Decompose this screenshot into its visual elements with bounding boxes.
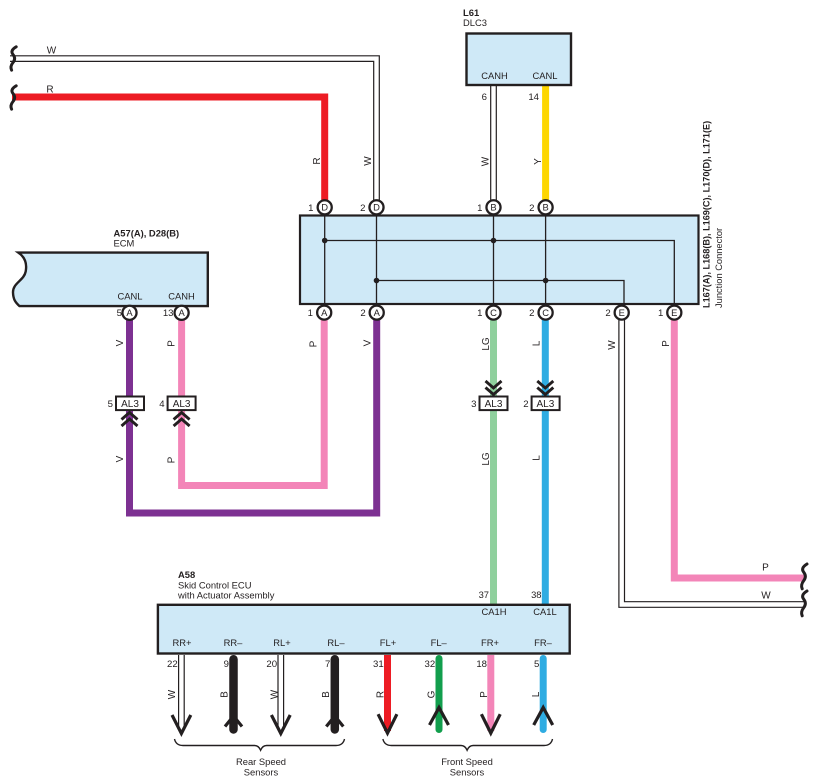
svg-text:V: V <box>363 339 374 346</box>
svg-text:Rear Speed: Rear Speed <box>236 756 286 767</box>
svg-text:FL+: FL+ <box>380 637 397 648</box>
svg-text:Sensors: Sensors <box>244 767 279 778</box>
svg-text:7: 7 <box>325 659 330 670</box>
svg-text:W: W <box>363 156 374 166</box>
svg-text:A: A <box>178 307 185 318</box>
svg-text:B: B <box>542 202 548 213</box>
svg-text:AL3: AL3 <box>537 399 555 410</box>
svg-text:RL+: RL+ <box>273 637 291 648</box>
svg-text:6: 6 <box>482 92 487 103</box>
svg-text:CANL: CANL <box>532 70 557 81</box>
svg-text:38: 38 <box>531 589 541 600</box>
svg-text:2: 2 <box>523 399 528 410</box>
svg-text:B: B <box>219 691 230 698</box>
svg-text:A: A <box>374 307 381 318</box>
svg-text:4: 4 <box>159 399 165 410</box>
svg-text:L: L <box>531 340 542 346</box>
svg-text:P: P <box>661 340 672 347</box>
svg-text:A58: A58 <box>178 569 195 580</box>
svg-text:2: 2 <box>605 308 610 319</box>
svg-text:P: P <box>479 691 490 698</box>
svg-text:R: R <box>375 691 386 698</box>
svg-text:W: W <box>269 689 280 699</box>
svg-text:AL3: AL3 <box>485 399 503 410</box>
svg-text:2: 2 <box>360 203 365 214</box>
svg-text:LG: LG <box>481 337 492 351</box>
svg-text:1: 1 <box>477 203 482 214</box>
svg-text:Y: Y <box>533 158 544 165</box>
svg-text:AL3: AL3 <box>173 399 191 410</box>
svg-text:P: P <box>166 456 177 463</box>
svg-text:with Actuator Assembly: with Actuator Assembly <box>177 589 275 600</box>
svg-text:E: E <box>671 307 677 318</box>
svg-text:W: W <box>480 156 491 166</box>
svg-text:FR–: FR– <box>534 637 552 648</box>
svg-text:2: 2 <box>529 203 534 214</box>
svg-text:AL3: AL3 <box>121 399 139 410</box>
svg-text:R: R <box>312 157 323 164</box>
svg-text:3: 3 <box>471 399 476 410</box>
svg-text:31: 31 <box>373 659 384 670</box>
svg-text:13: 13 <box>163 308 174 319</box>
svg-text:FR+: FR+ <box>481 637 499 648</box>
svg-text:5: 5 <box>534 659 539 670</box>
svg-text:B: B <box>490 202 496 213</box>
svg-text:18: 18 <box>476 659 487 670</box>
svg-text:1: 1 <box>658 308 663 319</box>
svg-text:1: 1 <box>308 203 313 214</box>
svg-text:Junction Connector: Junction Connector <box>714 228 724 308</box>
svg-text:C: C <box>542 307 549 318</box>
svg-text:2: 2 <box>529 308 534 319</box>
svg-text:RL–: RL– <box>327 637 345 648</box>
svg-text:RR–: RR– <box>224 637 244 648</box>
svg-text:C: C <box>490 307 497 318</box>
svg-text:ECM: ECM <box>114 238 135 249</box>
svg-text:L167(A), L168(B), L169(C), L17: L167(A), L168(B), L169(C), L170(D), L171… <box>702 121 712 308</box>
svg-text:B: B <box>321 691 332 698</box>
svg-text:W: W <box>607 340 618 350</box>
svg-text:22: 22 <box>167 659 178 670</box>
svg-text:Front Speed: Front Speed <box>441 756 493 767</box>
svg-text:LG: LG <box>481 452 492 466</box>
svg-text:L: L <box>531 691 542 697</box>
svg-text:W: W <box>761 591 771 602</box>
svg-text:CANH: CANH <box>168 291 195 302</box>
svg-text:A: A <box>126 307 133 318</box>
svg-text:32: 32 <box>425 659 436 670</box>
svg-text:FL–: FL– <box>431 637 448 648</box>
svg-text:2: 2 <box>360 308 365 319</box>
svg-text:W: W <box>47 46 57 57</box>
svg-text:CA1L: CA1L <box>533 606 556 617</box>
svg-text:9: 9 <box>224 659 229 670</box>
svg-text:P: P <box>166 340 177 347</box>
svg-text:RR+: RR+ <box>172 637 192 648</box>
svg-text:G: G <box>427 690 438 698</box>
svg-text:W: W <box>167 689 178 699</box>
svg-text:37: 37 <box>479 589 489 600</box>
svg-text:D: D <box>373 202 380 213</box>
svg-text:CANH: CANH <box>481 70 508 81</box>
svg-text:P: P <box>309 340 320 347</box>
svg-text:1: 1 <box>477 308 482 319</box>
svg-text:CANL: CANL <box>117 291 142 302</box>
svg-text:20: 20 <box>266 659 277 670</box>
svg-text:A: A <box>321 307 328 318</box>
svg-text:5: 5 <box>117 308 122 319</box>
svg-text:14: 14 <box>528 92 539 103</box>
svg-text:1: 1 <box>308 308 313 319</box>
svg-text:V: V <box>115 339 126 346</box>
svg-text:DLC3: DLC3 <box>463 17 487 28</box>
svg-text:CA1H: CA1H <box>481 606 506 617</box>
svg-text:P: P <box>762 563 769 574</box>
svg-text:D: D <box>321 202 328 213</box>
svg-text:Sensors: Sensors <box>450 767 485 778</box>
svg-text:R: R <box>46 85 53 96</box>
svg-text:E: E <box>619 307 625 318</box>
svg-text:L: L <box>531 455 542 461</box>
svg-text:5: 5 <box>108 399 113 410</box>
svg-text:V: V <box>115 455 126 462</box>
